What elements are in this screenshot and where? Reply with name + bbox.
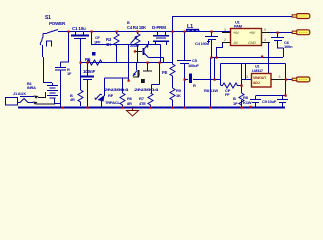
svg-text:K1W: K1W — [243, 100, 252, 105]
svg-text:-IN: -IN — [233, 41, 238, 45]
pin stubs U1 — [222, 33, 270, 43]
svg-text:2: 2 — [224, 38, 226, 42]
svg-text:TRPACL: TRPACL — [105, 100, 120, 105]
label C2 — [67, 67, 72, 76]
wire top bus — [58, 31, 230, 33]
svg-text:C4 R4 10K: C4 R4 10K — [127, 25, 146, 30]
resistor R11 — [239, 93, 244, 107]
connector OUT3 — [292, 77, 310, 82]
svg-text:C9 10uF: C9 10uF — [262, 99, 277, 104]
node output blob — [141, 79, 145, 83]
wire feedback rect — [221, 64, 286, 96]
svg-text:U2: U2 — [255, 65, 259, 69]
wire output column — [129, 63, 160, 94]
wire lozenge1 net — [172, 17, 292, 63]
pin numbers U1 — [224, 28, 266, 42]
capacitor C6 — [271, 33, 284, 58]
resistor R7b — [148, 93, 153, 107]
node square — [92, 52, 96, 56]
label B1 — [27, 81, 36, 90]
svg-text:FF: FF — [225, 92, 230, 97]
svg-text:5: 5 — [264, 28, 266, 32]
jack tip contact — [34, 92, 47, 99]
battery B1 — [47, 83, 61, 104]
svg-text:4: 4 — [264, 38, 266, 42]
resistor R5 — [85, 60, 109, 65]
connector OUT1 — [292, 14, 310, 19]
label S1 POWER — [45, 15, 66, 26]
capacitor C4 — [205, 32, 218, 58]
svg-text:VIN/OUT: VIN/OUT — [253, 76, 267, 80]
label R7 — [162, 70, 182, 98]
svg-text:4TE: 4TE — [139, 101, 146, 106]
svg-text:2N39: 2N39 — [130, 43, 140, 48]
label R3 — [106, 37, 112, 47]
svg-text:R: R — [193, 83, 196, 88]
svg-text:1K: 1K — [106, 42, 111, 47]
label R11 — [225, 88, 238, 106]
svg-text:100uF: 100uF — [188, 63, 199, 68]
label R6 — [127, 96, 133, 106]
label D1 — [105, 93, 120, 105]
capacitor C2 — [55, 32, 69, 108]
pin stubs U2 — [271, 79, 285, 81]
wire mid rail — [80, 62, 172, 64]
resistor R6 — [120, 78, 125, 107]
connector J1 audio jack — [6, 97, 35, 106]
junction dots — [62, 31, 288, 109]
svg-text:4R: 4R — [70, 97, 75, 102]
svg-text:2N3904: 2N3904 — [104, 87, 130, 92]
label C6 — [284, 40, 293, 49]
label R7b — [139, 96, 146, 106]
wire driver feed — [105, 78, 129, 96]
svg-text:C1 10u: C1 10u — [72, 26, 86, 31]
capacitor C10 — [277, 96, 288, 108]
capacitor C3 — [81, 63, 94, 108]
op-amp U1 — [231, 29, 262, 46]
label Q2 Q3 — [104, 87, 160, 92]
connector OUT2 — [292, 30, 310, 35]
svg-text:100nF: 100nF — [83, 69, 95, 74]
svg-text:1PF: 1PF — [94, 41, 101, 45]
svg-text:PAM: PAM — [234, 24, 242, 29]
svg-text:R5: R5 — [85, 57, 91, 62]
label R4b — [70, 93, 75, 102]
capacitor C5 — [177, 32, 191, 108]
wire IC1 input — [217, 32, 231, 58]
diode D1 zener — [95, 94, 105, 107]
resistor R4 pot — [135, 32, 140, 63]
transistor Q2 — [133, 63, 140, 78]
svg-text:1P: 1P — [233, 101, 238, 106]
pin numbers U2 — [246, 75, 281, 79]
svg-text:RF: RF — [108, 93, 114, 98]
wire U2 out — [286, 79, 292, 81]
resistor R4b — [78, 62, 83, 106]
svg-text:INRA: INRA — [27, 85, 36, 90]
pot R4 wiper arrow — [131, 37, 138, 44]
label C4 — [195, 41, 210, 46]
wire upper ground rail — [211, 57, 283, 59]
jack ring contact — [33, 102, 56, 105]
label C5 — [188, 58, 199, 68]
svg-text:100n: 100n — [284, 44, 293, 49]
resistor R10 — [221, 83, 243, 88]
transistor Q1 — [135, 41, 164, 62]
capacitor C9 — [250, 96, 261, 108]
svg-text:+9V: +9V — [249, 31, 256, 35]
resistor R3 — [114, 32, 119, 63]
svg-text:POWER: POWER — [49, 21, 66, 26]
wire bottom vertical risers — [241, 100, 243, 107]
svg-text:R8 K1W: R8 K1W — [204, 88, 218, 93]
battery clip icon — [47, 41, 52, 47]
svg-text:FE: FE — [162, 70, 167, 75]
svg-text:+IN: +IN — [233, 31, 239, 35]
wire vreg drop — [211, 58, 215, 108]
wire step to Q bases — [92, 32, 161, 72]
wire Q2 base — [143, 63, 152, 72]
inductor L1 — [186, 24, 199, 32]
label C9 — [243, 95, 252, 105]
svg-text:C4 100n: C4 100n — [195, 41, 210, 46]
svg-text:8R: 8R — [127, 101, 132, 106]
capacitor C1 — [71, 32, 89, 63]
regulator U2 — [252, 74, 272, 88]
wire to adj — [242, 64, 253, 94]
resistor R7 string — [170, 62, 175, 107]
svg-text:3: 3 — [279, 75, 281, 79]
wire battery positive loop — [40, 34, 52, 84]
wire U1 output — [269, 33, 293, 75]
svg-text:2N3904: 2N3904 — [134, 87, 160, 92]
svg-text:ADJ: ADJ — [253, 81, 260, 85]
svg-text:3: 3 — [224, 28, 226, 32]
svg-text:D-PRM: D-PRM — [152, 25, 166, 30]
svg-text:1K: 1K — [176, 93, 181, 98]
svg-text:J1 AUX: J1 AUX — [13, 91, 26, 96]
wire bottom ground bus — [18, 107, 285, 109]
capacitor C8 series — [185, 74, 221, 84]
svg-text:LM317: LM317 — [252, 69, 263, 73]
capacitor C7 bipolar — [153, 32, 169, 46]
switch S1 — [43, 30, 58, 34]
svg-text:GND: GND — [248, 41, 256, 45]
ground — [127, 108, 139, 116]
label R2 — [94, 36, 101, 45]
svg-text:3: 3 — [246, 75, 248, 79]
